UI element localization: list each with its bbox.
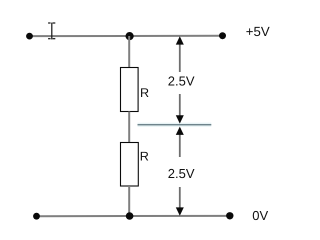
dimension arrow upper down	[176, 94, 184, 124]
svg-text:R: R	[140, 149, 149, 163]
dimension arrow upper up	[176, 36, 184, 72]
wire top junction to R1	[128, 36, 130, 68]
midpoint half-voltage marker halo	[138, 123, 212, 127]
resistor R1	[121, 68, 139, 112]
node top junction	[126, 32, 134, 40]
svg-text:R: R	[140, 86, 149, 100]
node bottom-right 0V terminal	[226, 212, 233, 219]
wire between R1 and R2	[128, 112, 130, 143]
wire R2 to bottom rail	[128, 186, 130, 216]
wire top rail	[30, 35, 223, 37]
dimension arrow lower up	[176, 127, 184, 157]
midpoint half-voltage marker line	[138, 124, 212, 126]
resistor R2	[121, 143, 139, 187]
svg-text:2.5V: 2.5V	[168, 166, 195, 181]
node top-right +5V terminal	[219, 32, 226, 39]
dimension arrow lower down	[176, 187, 184, 216]
node bottom junction	[126, 212, 134, 220]
wire bottom rail	[37, 215, 230, 217]
node bottom-left	[33, 213, 40, 220]
svg-text:0V: 0V	[252, 208, 268, 223]
node top-left	[26, 33, 33, 40]
svg-text:+5V: +5V	[246, 24, 270, 39]
text cursor I-beam	[48, 22, 55, 39]
svg-text:2.5V: 2.5V	[168, 74, 195, 89]
